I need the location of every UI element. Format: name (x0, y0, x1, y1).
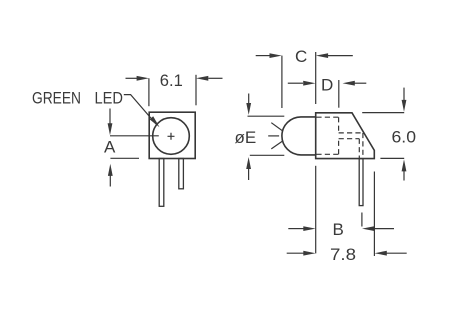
leader from LED label to circle (124, 95, 156, 124)
LED body square (149, 112, 195, 158)
hidden (dashed) lead frame arm (339, 132, 363, 134)
hidden (dashed) reflector cup (316, 116, 338, 118)
svg-text:C: C (295, 47, 307, 66)
svg-text:6.1: 6.1 (160, 71, 183, 90)
lead below body (359, 159, 363, 206)
center cross (168, 133, 175, 140)
dimension 7.8 (bottom) (287, 252, 304, 254)
dimension B (bottom) (315, 166, 317, 254)
body outline with bevel (316, 113, 375, 159)
dimension OE (dome diameter) (248, 94, 250, 104)
svg-text:6.0: 6.0 (392, 128, 417, 147)
dimension A (left) (109, 109, 111, 124)
svg-text:A: A (104, 137, 116, 156)
hidden (dashed) lead inside body (362, 133, 364, 159)
svg-text:7.8: 7.8 (330, 245, 356, 264)
dimension 6.0 (right) (403, 88, 405, 100)
label GREEN LED (32, 89, 123, 108)
svg-text:LED: LED (95, 89, 124, 108)
svg-text:øE: øE (235, 128, 257, 147)
svg-text:B: B (333, 220, 344, 239)
dimension C (256, 55, 270, 57)
svg-text:GREEN: GREEN (32, 89, 81, 108)
pin 2 (right, short) (179, 159, 184, 189)
dimension D (288, 82, 303, 84)
dimension 6.1 (top) (126, 77, 138, 79)
LED dome circle (153, 118, 190, 155)
light rays (271, 123, 283, 132)
pin 1 (left, long) (159, 159, 164, 207)
dome (lens) (282, 117, 316, 155)
svg-text:D: D (321, 75, 333, 94)
